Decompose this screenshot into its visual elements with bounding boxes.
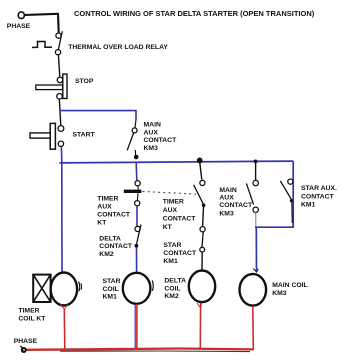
wire: contact KM3 to lower junction (thin) — [255, 212, 257, 227]
svg-text:STOP: STOP — [75, 78, 94, 85]
wire: timer NO to star interlock (black) — [202, 207, 205, 226]
svg-text:AUX: AUX — [163, 207, 178, 214]
svg-text:CONTACT: CONTACT — [97, 212, 131, 219]
svg-text:DELTA: DELTA — [164, 278, 186, 285]
mark: arrow at main coil top — [253, 269, 258, 273]
coil KM2 (DELTA COIL) — [189, 271, 215, 303]
svg-text:COIL: COIL — [164, 285, 180, 292]
wire: node between STOP and START to holding contact (blue) — [60, 111, 137, 120]
svg-text:STAR: STAR — [163, 242, 181, 249]
junction dot: main branch — [254, 160, 258, 164]
wire: delta branch vertical (black) — [200, 162, 202, 180]
svg-text:COIL KT: COIL KT — [18, 315, 46, 322]
wire: timer NC to KM2 interlock (blue) — [136, 206, 138, 226]
wire: bottom phase bus (red) — [23, 349, 254, 350]
svg-text:CONTACT: CONTACT — [144, 137, 178, 144]
svg-text:STAR: STAR — [103, 278, 121, 285]
svg-text:CONTACT: CONTACT — [163, 216, 197, 223]
svg-text:AUX: AUX — [219, 195, 234, 202]
timer aux contact KT (NO, delta branch) — [194, 180, 206, 207]
svg-text:KT: KT — [163, 224, 173, 231]
svg-text:PHASE: PHASE — [7, 23, 31, 30]
mark: small arcs right of timer circle — [79, 282, 80, 292]
timer coil KT (box with X) — [33, 275, 50, 302]
wire: phase terminal to TOL (black) — [24, 14, 58, 33]
svg-text:COIL: COIL — [103, 286, 119, 293]
svg-text:KM1: KM1 — [163, 258, 178, 265]
svg-text:MAIN: MAIN — [219, 187, 236, 194]
wire: delta coil to bottom bus (red) — [199, 303, 201, 350]
wire: STOP to START (black) — [59, 99, 61, 126]
svg-text:PHASE: PHASE — [14, 338, 38, 345]
svg-text:TIMER: TIMER — [18, 308, 39, 315]
contact KM1 (star interlock) — [200, 227, 205, 252]
svg-text:CONTACT: CONTACT — [219, 202, 253, 209]
svg-text:CONTACT: CONTACT — [99, 243, 133, 250]
wire: star interlock to delta coil (black) — [201, 252, 203, 270]
svg-text:KM1: KM1 — [103, 294, 118, 301]
svg-text:START: START — [73, 132, 96, 139]
wire: junction down to main coil (blue) — [255, 227, 257, 271]
thermal overload relay contact — [32, 31, 62, 55]
push button START (NO) — [30, 123, 64, 149]
svg-text:KT: KT — [97, 220, 107, 227]
svg-text:DELTA: DELTA — [99, 235, 121, 242]
wire: star coil to bottom bus (red+blue) — [134, 304, 136, 350]
svg-text:KM2: KM2 — [99, 251, 114, 258]
terminal: top PHASE — [18, 12, 24, 19]
svg-text:CONTACT: CONTACT — [163, 250, 197, 257]
svg-text:MAIN: MAIN — [144, 122, 161, 129]
wire: main branch vertical (black) — [255, 163, 257, 181]
wire: bus down to timer NC contact (blue) — [135, 163, 138, 181]
junction dot: holding contact to bus — [134, 155, 139, 160]
mechanical link timer (dashed) — [143, 191, 197, 194]
wire: main horizontal control bus (blue) — [59, 161, 293, 163]
wire: main coil to bottom bus (red) — [252, 306, 255, 350]
wire: TOL to STOP (black) — [58, 55, 59, 77]
timer aux contact KT (NC with bar) — [124, 181, 142, 206]
mark: small arcs right of star coil — [152, 281, 153, 291]
svg-text:KM3: KM3 — [272, 290, 287, 297]
contact KM3 (main aux, right) — [246, 180, 258, 212]
push button STOP (NC) — [36, 74, 67, 99]
svg-text:AUX: AUX — [144, 129, 159, 136]
svg-text:CONTACT: CONTACT — [301, 193, 335, 200]
svg-text:CONTROL WIRING OF STAR DELTA S: CONTROL WIRING OF STAR DELTA STARTER (OP… — [74, 9, 315, 18]
contact KM1 (star aux, far right) — [280, 179, 293, 223]
coil KM3 (MAIN COIL) — [240, 274, 267, 306]
contact KM2 (delta interlock) — [135, 225, 142, 248]
svg-text:STAR AUX.: STAR AUX. — [301, 185, 337, 192]
timer coil circle — [51, 273, 77, 306]
coil KM1 (STAR COIL) — [123, 273, 151, 304]
svg-text:TIMER: TIMER — [163, 199, 184, 206]
wire: below START down to bus and to timer coil (blue) — [60, 147, 63, 271]
svg-text:THERMAL OVER LOAD RELAY: THERMAL OVER LOAD RELAY — [68, 44, 168, 51]
wire: timer coil to bottom bus (red) — [63, 309, 66, 350]
svg-text:KM2: KM2 — [164, 293, 179, 300]
svg-text:KM3: KM3 — [144, 145, 159, 152]
svg-text:MAIN COIL: MAIN COIL — [272, 282, 308, 289]
svg-text:TIMER: TIMER — [97, 196, 118, 203]
wire: KM2 interlock to star coil (blue) — [136, 248, 138, 273]
svg-text:AUX: AUX — [97, 204, 112, 211]
junction dot: delta branch — [197, 158, 203, 164]
wire: right side L (blue) — [255, 161, 293, 227]
svg-text:KM1: KM1 — [301, 202, 316, 209]
auxiliary contact KM3 (holding, NO) — [127, 119, 137, 156]
svg-text:KM3: KM3 — [219, 211, 234, 218]
terminal: bottom PHASE — [21, 347, 27, 353]
